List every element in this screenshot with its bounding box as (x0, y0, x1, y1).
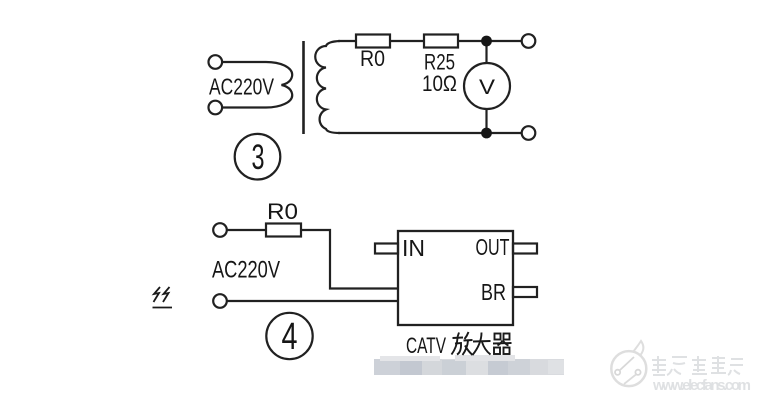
svg-text:V: V (479, 76, 495, 99)
svg-text:CATV: CATV (406, 333, 446, 358)
svg-text:IN: IN (402, 235, 425, 261)
svg-text:R0: R0 (267, 199, 298, 224)
svg-text:R0: R0 (360, 46, 385, 71)
svg-text:3: 3 (252, 138, 265, 177)
svg-text:4: 4 (282, 316, 298, 358)
svg-text:www.elecfans.com: www.elecfans.com (652, 377, 751, 394)
svg-text:OUT: OUT (476, 234, 510, 260)
svg-text:10Ω: 10Ω (422, 71, 457, 96)
svg-text:AC220V: AC220V (209, 74, 274, 100)
svg-text:AC220V: AC220V (212, 257, 280, 284)
svg-text:BR: BR (481, 279, 506, 305)
